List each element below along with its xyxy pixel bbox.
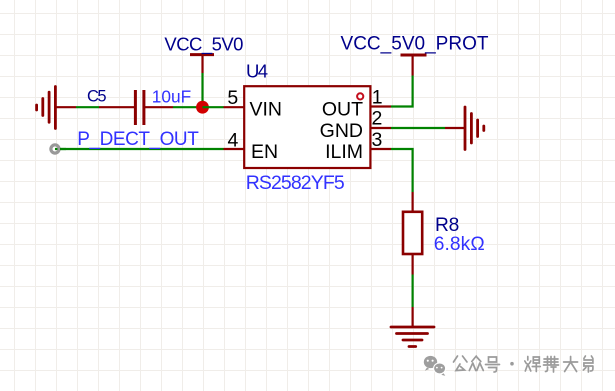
resistor R8 [403,212,422,254]
大 [564,357,578,372]
svg-text:5: 5 [227,87,238,109]
svg-text:P_DECT_OUT: P_DECT_OUT [77,129,199,150]
号 [486,357,500,372]
watermark logo [424,356,446,376]
svg-text:VCC_5V0_PROT: VCC_5V0_PROT [341,34,489,55]
ground bottom (earth) [391,327,434,347]
svg-text:2: 2 [372,107,383,129]
node P_DECT_OUT (gray terminal dot) [51,145,66,153]
wire: pin 1 to VCC_5V0_PROT [371,76,413,107]
svg-text:ILIM: ILIM [325,141,363,163]
svg-text:10uF: 10uF [152,87,192,107]
svg-text:3: 3 [372,129,383,151]
焊 [525,357,541,372]
svg-text:4: 4 [227,130,238,152]
弟 [583,356,593,372]
svg-text:OUT: OUT [322,99,363,121]
svg-text:RS2582YF5: RS2582YF5 [246,172,345,194]
power port VCC_5V0 [164,34,243,74]
svg-text:GND: GND [320,120,363,142]
公 [454,356,468,371]
舞 [544,357,559,373]
wire: pin 2 (GND) to right ground [371,127,466,129]
wire: left ground to C5 (pin stub + net) [55,106,135,108]
junction node (VIN net) [196,101,209,114]
众 [469,356,483,371]
svg-text:U4: U4 [246,61,268,82]
svg-text:EN: EN [251,141,278,163]
· [510,362,514,366]
ground right (earth, horizontal) [465,107,484,150]
svg-text:C5: C5 [87,88,107,106]
svg-text:6.8kΩ: 6.8kΩ [434,234,485,255]
wire: P_DECT_OUT to pin 4 [60,148,244,150]
watermark text 公众号·焊舞大弟 [454,356,593,372]
wire: VCC_5V0 to junction [201,73,203,107]
wire: pin 3 (ILIM) to R8 [371,149,413,212]
wire: C5 to junction [144,106,203,108]
pin 1 polarity circle [357,93,363,99]
svg-text:R8: R8 [435,215,459,236]
wire: R8 to bottom ground [412,254,414,327]
IC U4 body [244,86,370,168]
power port VCC_5V0_PROT [341,34,489,76]
svg-text:VCC_5V0: VCC_5V0 [164,34,243,56]
svg-text:VIN: VIN [250,98,283,120]
capacitor C5 [135,90,144,125]
wire: junction to pin 5 [203,106,245,108]
svg-text:1: 1 [372,86,383,108]
ground GND left (earth, horizontal) [37,87,56,129]
